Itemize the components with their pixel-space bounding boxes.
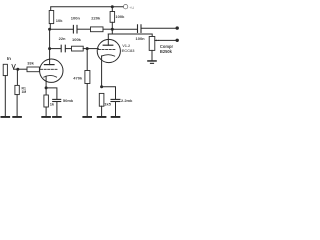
wire plate1 feedback line xyxy=(50,28,73,30)
resistor 100k grid xyxy=(72,46,84,51)
resistor 1M xyxy=(15,85,19,94)
wire input load to ground xyxy=(4,76,6,117)
wire 1M to ground xyxy=(16,95,18,117)
ground input load xyxy=(1,116,11,118)
svg-text:100n: 100n xyxy=(136,36,146,41)
resistor 1k5 cathode2 xyxy=(99,93,104,106)
capacitor 100n output xyxy=(137,25,139,33)
node cathode2 xyxy=(100,85,103,88)
wire cap to 220k xyxy=(78,28,91,30)
terminal out 2 xyxy=(176,39,179,42)
resistor 100k plate tube2 xyxy=(110,12,115,23)
wire 10k to plate1 node xyxy=(49,24,51,30)
svg-text:B250k: B250k xyxy=(160,49,173,54)
capacitor 50mk bypass xyxy=(53,98,61,100)
tube V1.2 triode circle xyxy=(97,39,120,62)
svg-text:1k: 1k xyxy=(50,101,55,106)
wire cathode1 down xyxy=(45,76,47,95)
tube V1.1 triode circle xyxy=(40,59,63,82)
wire rail to 100k xyxy=(111,7,113,12)
wire plate1 vertical xyxy=(49,29,51,65)
wire 2.2mk to ground xyxy=(115,102,117,117)
svg-text:In: In xyxy=(7,56,11,61)
ground 2.2mk xyxy=(111,116,121,118)
svg-text:100k: 100k xyxy=(72,37,82,42)
wire input xyxy=(14,68,27,70)
wire 470k to ground xyxy=(86,84,88,117)
resistor 220k xyxy=(91,27,104,32)
resistor 1k cathode1 xyxy=(44,95,49,107)
wire pot bottom xyxy=(151,50,153,60)
wire 1k5 to ground xyxy=(101,106,103,116)
resistor 470k grid leak xyxy=(85,71,90,84)
wire plate2 to output cap xyxy=(112,28,137,30)
node input xyxy=(16,68,19,71)
wire 220k to plate2 node xyxy=(103,28,112,30)
node plate1 xyxy=(48,28,51,31)
wire 1k to ground xyxy=(45,107,47,116)
ground 50mk xyxy=(52,116,62,118)
svg-text:1M: 1M xyxy=(22,90,27,94)
wire bypass cap to ground xyxy=(56,102,58,117)
wire grid2 from coupling xyxy=(87,48,98,50)
resistor 10k plate tube1 xyxy=(49,11,54,24)
wire plate2 vertical xyxy=(111,22,113,34)
svg-text:+U: +U xyxy=(129,5,134,10)
anode bar tube2 xyxy=(103,44,113,46)
svg-text:100k: 100k xyxy=(115,14,125,19)
svg-text:470k: 470k xyxy=(73,76,83,81)
svg-text:22n: 22n xyxy=(59,36,66,41)
cathode tube1 xyxy=(44,75,57,77)
wire cathode2 to 2.2mk cap xyxy=(102,87,116,99)
wire 100k to grid node xyxy=(83,48,87,50)
svg-text:100n: 100n xyxy=(71,16,81,21)
capacitor 100n feedback xyxy=(72,25,74,33)
ground 1k xyxy=(41,116,51,118)
wire plate2 to pot top xyxy=(108,34,152,37)
ground pot bar1 xyxy=(147,60,157,62)
input arrow xyxy=(12,64,15,69)
grid tube2 dashed xyxy=(98,48,115,50)
svg-text:50mk: 50mk xyxy=(63,98,74,103)
wire plate1 to coupling cap xyxy=(50,48,61,50)
svg-text:33k: 33k xyxy=(27,60,34,65)
svg-text:1k5: 1k5 xyxy=(104,102,111,107)
node rail xyxy=(111,5,114,8)
node grid2 xyxy=(86,47,89,50)
terminal out 1 xyxy=(176,26,179,29)
wire wiper to terminal xyxy=(159,39,177,41)
resistor input load xyxy=(3,64,7,75)
wire anode2 drop xyxy=(107,34,109,45)
svg-text:220k: 220k xyxy=(91,16,101,21)
ground pot bar2 xyxy=(150,63,154,64)
wire output cap to terminal xyxy=(142,27,177,29)
grid tube1 dashed xyxy=(41,68,58,70)
potentiometer Compr B250k xyxy=(149,37,155,51)
wire input node to 1M xyxy=(16,69,18,85)
svg-text:2.2mk: 2.2mk xyxy=(121,98,133,103)
ground 1k5 xyxy=(97,116,107,118)
node plate2 xyxy=(111,28,114,31)
supply terminal circle xyxy=(123,5,127,9)
cathode tube2 xyxy=(102,55,115,56)
svg-text:10k: 10k xyxy=(56,18,63,23)
anode bar tube1 xyxy=(44,64,54,66)
ground 470k xyxy=(82,116,92,118)
node cathode1 xyxy=(45,86,48,89)
wire cathode2 down xyxy=(101,56,103,87)
capacitor 22n coupling xyxy=(60,45,62,52)
wire cathode1 to bypass cap xyxy=(46,88,57,99)
wire cap to 100k grid resistor xyxy=(66,48,72,50)
resistor 33k xyxy=(27,67,39,72)
wire top supply rail xyxy=(51,7,124,11)
wire grid node down to 470k xyxy=(86,49,88,71)
node plate1 branch xyxy=(48,47,51,50)
capacitor 2.2mk xyxy=(111,98,120,100)
svg-text:ECC83: ECC83 xyxy=(122,48,136,53)
ground 1M xyxy=(12,116,22,118)
pot wiper arrow xyxy=(155,39,159,41)
